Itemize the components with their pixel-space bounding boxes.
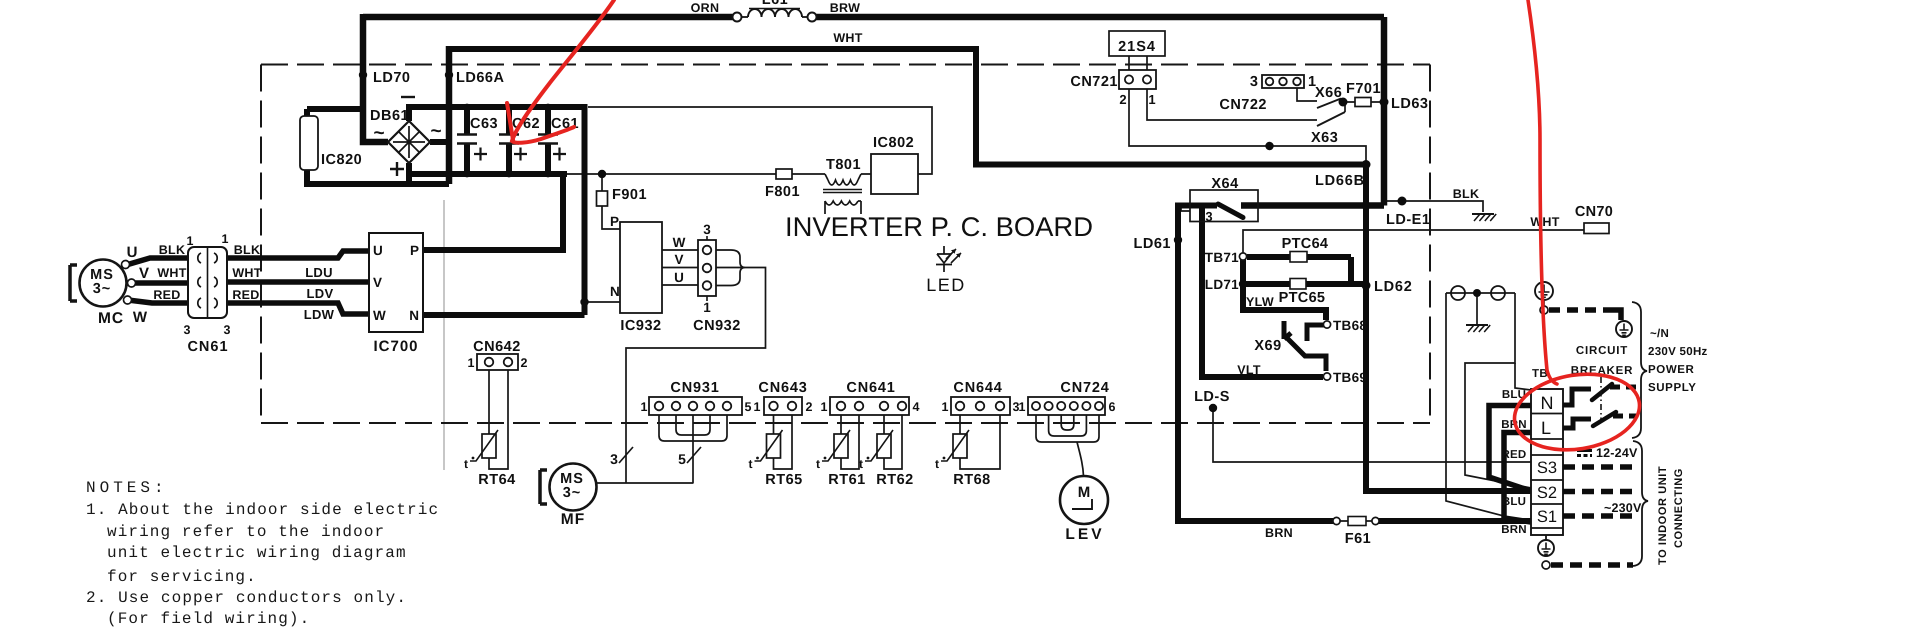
svg-text:LD-E1: LD-E1 xyxy=(1386,212,1430,228)
svg-text:BRN: BRN xyxy=(1501,524,1527,536)
svg-text:S1: S1 xyxy=(1537,508,1557,526)
node LD-E1 xyxy=(1398,197,1407,206)
svg-text:P: P xyxy=(410,243,419,258)
node: MC terminal U xyxy=(122,261,130,269)
capacitor C63 xyxy=(457,135,477,144)
transformer T801 xyxy=(825,174,861,180)
inverter p.c. board boundary xyxy=(261,65,1430,424)
node LD61 xyxy=(1174,236,1182,244)
svg-text:for servicing.: for servicing. xyxy=(107,568,257,586)
wire: motor MC leads U V W xyxy=(126,258,188,303)
svg-text:LED: LED xyxy=(926,275,966,295)
earth terminal circle (breaker) xyxy=(1616,321,1632,337)
svg-text:T801: T801 xyxy=(826,157,861,173)
svg-text:1: 1 xyxy=(942,400,949,414)
svg-text:W: W xyxy=(373,308,386,323)
svg-text:LD66A: LD66A xyxy=(456,70,504,86)
svg-text:W: W xyxy=(673,235,686,250)
svg-text:LDW: LDW xyxy=(304,307,335,322)
red annotation: ellipse around N L terminals xyxy=(1509,366,1645,459)
wire: TB68 link xyxy=(1307,325,1324,341)
svg-text:21S4: 21S4 xyxy=(1118,39,1156,55)
earth terminal circle (top) xyxy=(1535,282,1553,300)
svg-text:RED: RED xyxy=(1502,449,1527,461)
svg-text:IC820: IC820 xyxy=(321,152,362,168)
svg-text:5: 5 xyxy=(678,451,686,467)
svg-text:PTC65: PTC65 xyxy=(1279,290,1326,306)
wire: X66 junction to F701 to LD63 xyxy=(1343,102,1384,112)
svg-text:U: U xyxy=(127,244,138,261)
wire: minus rail to IC802 top loop xyxy=(588,107,932,174)
wire: S2 field dashed xyxy=(1563,489,1634,495)
fuse F701 xyxy=(1355,98,1371,107)
wire: earth link right drop to S2 xyxy=(1465,293,1531,488)
svg-text:~230V: ~230V xyxy=(1604,501,1642,515)
circuit breaker L pole xyxy=(1563,419,1591,428)
connector CN722 xyxy=(1262,75,1304,88)
svg-text:U: U xyxy=(674,270,684,285)
svg-text:INVERTER P. C. BOARD: INVERTER P. C. BOARD xyxy=(785,212,1093,242)
svg-text:X66: X66 xyxy=(1315,85,1342,101)
bridge rectifier DB61 xyxy=(388,121,430,163)
motor MC (compressor) xyxy=(80,260,127,307)
wire: MF to CN931 center (5 wire) xyxy=(596,482,694,484)
svg-text:TB71: TB71 xyxy=(1205,250,1239,265)
svg-text:CN643: CN643 xyxy=(758,380,807,396)
capacitor C61 xyxy=(538,135,558,144)
wire: N from IC700 xyxy=(423,104,585,315)
node LD66A xyxy=(445,71,453,79)
svg-text:CONNECTING: CONNECTING xyxy=(1673,468,1685,548)
node LD70 xyxy=(359,71,367,79)
svg-text:LD63: LD63 xyxy=(1391,96,1428,112)
svg-text:3: 3 xyxy=(703,222,711,237)
svg-text:LD61: LD61 xyxy=(1134,236,1171,252)
svg-text:POWER: POWER xyxy=(1648,364,1695,376)
svg-text:1: 1 xyxy=(468,356,475,370)
svg-text:3~: 3~ xyxy=(563,485,582,501)
wire: P from IC700 xyxy=(423,171,563,250)
svg-text:YLW: YLW xyxy=(1246,295,1274,309)
connector CN70 xyxy=(1584,223,1609,234)
svg-text:wiring refer to the indoor: wiring refer to the indoor xyxy=(107,523,385,541)
svg-text:CN722: CN722 xyxy=(1219,97,1267,113)
wire: LD66A vertical xyxy=(446,46,453,184)
svg-text:LD62: LD62 xyxy=(1374,279,1413,295)
IC U1 IC700 inverter power module xyxy=(369,233,423,332)
motor MF (fan) xyxy=(550,464,597,511)
wire: F901 branch P into IC932 xyxy=(602,174,620,229)
svg-text:WHT: WHT xyxy=(157,266,186,280)
capacitor C63 leads xyxy=(464,104,470,177)
wire: PTC right link xyxy=(1348,257,1354,284)
svg-text:(For field wiring).: (For field wiring). xyxy=(107,610,310,628)
wire: X64 right contact to LD63 riser xyxy=(1241,17,1384,206)
ground: PE chassis xyxy=(1466,324,1488,326)
svg-text:VLT: VLT xyxy=(1237,363,1261,377)
svg-text:CN70: CN70 xyxy=(1575,204,1613,220)
svg-text:TB69: TB69 xyxy=(1333,370,1367,385)
fuse F61 xyxy=(1348,517,1366,526)
svg-text:1: 1 xyxy=(754,400,761,414)
thermistor RT61 xyxy=(834,434,848,458)
node LD63 xyxy=(1380,98,1389,107)
wire: S1 field dashed xyxy=(1563,513,1634,519)
wire: earth link stub to TB top xyxy=(1515,363,1531,390)
svg-text:IC700: IC700 xyxy=(373,338,418,355)
wire: CN724 bracket to LEV xyxy=(1036,421,1099,442)
svg-text:M: M xyxy=(1078,484,1091,501)
switch box 21S4 xyxy=(1109,31,1165,56)
svg-text:IC932: IC932 xyxy=(620,318,661,334)
svg-text:V: V xyxy=(373,275,382,290)
svg-text:1: 1 xyxy=(821,400,828,414)
protective earth screw terminals xyxy=(1451,286,1465,300)
switch X63 blade xyxy=(1317,112,1345,126)
node LD62 xyxy=(1362,281,1371,290)
node: X64 wire / bus vertical junction xyxy=(1362,201,1371,210)
svg-text:t: t xyxy=(749,457,753,471)
terminal TB68 xyxy=(1323,321,1330,328)
LED indicator xyxy=(936,246,952,272)
wire: TB71-LD71-YLW vertical xyxy=(1243,258,1326,320)
inductor L61 xyxy=(733,13,742,22)
connector CN61 xyxy=(188,247,227,318)
svg-text:5: 5 xyxy=(745,400,752,414)
terminal TB69 xyxy=(1323,373,1330,380)
node: X66 output junction xyxy=(1339,98,1348,107)
svg-text:3~: 3~ xyxy=(93,281,112,297)
brace: power supply group xyxy=(1632,302,1647,438)
svg-text:RT65: RT65 xyxy=(765,472,802,488)
wire: S3 field dashed xyxy=(1563,464,1634,470)
switch X64 blade xyxy=(1218,204,1243,218)
svg-text:6: 6 xyxy=(1109,400,1116,414)
svg-text:SUPPLY: SUPPLY xyxy=(1648,382,1697,394)
svg-text:1: 1 xyxy=(641,400,648,414)
svg-text:t: t xyxy=(464,457,468,471)
brace: to indoor unit group xyxy=(1633,441,1648,566)
node: N branch dot xyxy=(580,298,588,306)
svg-text:3: 3 xyxy=(224,323,231,337)
node: capacitor rail junctions xyxy=(464,104,471,111)
wire: CN932 merge bracket xyxy=(716,250,745,286)
svg-text:1: 1 xyxy=(222,232,229,246)
wire: N branch into IC932 xyxy=(585,301,620,303)
svg-text:LDV: LDV xyxy=(307,286,334,301)
wire: plus rail thin extension to F801/T801 xyxy=(567,173,871,175)
earth terminal circle (below TB) xyxy=(1545,535,1547,540)
svg-text:2: 2 xyxy=(1119,92,1126,107)
node LD-S xyxy=(1209,404,1217,412)
wire: plus bottom rail xyxy=(409,163,567,184)
svg-text:WHT: WHT xyxy=(833,31,862,45)
capacitor C62 xyxy=(499,135,519,144)
svg-text:X63: X63 xyxy=(1311,130,1338,146)
svg-text:BLU: BLU xyxy=(1502,496,1526,508)
breaker mechanical link xyxy=(1600,377,1602,419)
red annotation: vertical line to breaker xyxy=(1528,0,1557,384)
svg-text:MF: MF xyxy=(561,511,585,528)
svg-text:CIRCUIT: CIRCUIT xyxy=(1576,345,1628,357)
wire: LD-E1 to BLK ground xyxy=(1387,201,1483,212)
IC802 xyxy=(871,154,918,194)
svg-text:1: 1 xyxy=(1019,400,1026,414)
wire: minus top rail xyxy=(409,104,586,121)
connector CN724 xyxy=(1036,415,1099,421)
svg-text:RED: RED xyxy=(232,288,259,302)
wire: PE dot to chassis ground xyxy=(1476,293,1478,324)
thermistor RT65 xyxy=(767,434,781,458)
terminal: field wire start xyxy=(1540,306,1548,314)
svg-text:S2: S2 xyxy=(1537,484,1557,502)
svg-text:BLK: BLK xyxy=(234,243,261,257)
fuse F901 xyxy=(597,191,608,206)
svg-text:CN642: CN642 xyxy=(473,339,521,355)
wire: scan crease artifact xyxy=(443,200,445,470)
capacitor C62 leads xyxy=(506,104,512,177)
svg-text:RED: RED xyxy=(153,288,180,302)
wire: X64 pin3 to VLT to TB69 xyxy=(1202,206,1323,378)
connector CN643 xyxy=(774,415,793,469)
svg-text:L61: L61 xyxy=(762,0,789,8)
svg-text:W: W xyxy=(133,309,148,326)
wire: X64 coil stub xyxy=(1181,206,1190,211)
wire: CN61 to IC700 RED xyxy=(227,303,369,314)
wire: PTC64 row xyxy=(1247,254,1351,260)
svg-text:1: 1 xyxy=(703,300,711,315)
node: bus / X63 net junction xyxy=(1362,160,1371,169)
svg-text:3: 3 xyxy=(610,451,618,467)
svg-text:V: V xyxy=(674,252,683,267)
wire: N cell riser xyxy=(1489,406,1531,492)
svg-text:LD71: LD71 xyxy=(1205,277,1239,292)
svg-text:LD70: LD70 xyxy=(373,70,410,86)
svg-text:t: t xyxy=(859,457,863,471)
wire: BRN after F61 to S1 xyxy=(1378,518,1531,524)
wire: IC820 top lead xyxy=(307,109,363,116)
svg-text:RT62: RT62 xyxy=(876,472,913,488)
svg-text:BRW: BRW xyxy=(830,1,861,15)
motor LEV (expansion valve) xyxy=(1060,476,1108,524)
svg-text:MC: MC xyxy=(98,310,124,327)
capacitor C61 leads xyxy=(545,104,551,177)
fuse F801 xyxy=(776,169,792,179)
svg-text:2. Use copper conductors only.: 2. Use copper conductors only. xyxy=(86,589,407,607)
svg-text:~/N: ~/N xyxy=(1650,328,1669,340)
svg-text:NOTES:: NOTES: xyxy=(86,479,168,497)
wire: field earth dashed to breaker earth xyxy=(1549,307,1612,313)
node: MC terminal V xyxy=(128,279,136,287)
PTC65 element xyxy=(1290,279,1306,290)
svg-text:N: N xyxy=(409,308,419,323)
svg-text:P: P xyxy=(610,214,619,229)
svg-text:PTC64: PTC64 xyxy=(1282,236,1329,252)
wire: LD-S to S3 xyxy=(1213,408,1531,462)
terminal block TB xyxy=(1531,389,1563,535)
wire: PTC65 row xyxy=(1243,281,1366,287)
svg-text:RT61: RT61 xyxy=(828,472,865,488)
node on plus rail xyxy=(598,170,606,178)
svg-text:CN931: CN931 xyxy=(670,380,719,396)
svg-text:230V 50Hz: 230V 50Hz xyxy=(1648,346,1708,358)
svg-text:WHT: WHT xyxy=(232,266,261,280)
svg-text:LEV: LEV xyxy=(1065,526,1104,543)
svg-text:t: t xyxy=(935,457,939,471)
wire: CN61 to IC700 WHT xyxy=(227,279,369,285)
svg-text:BLK: BLK xyxy=(1453,187,1480,201)
connector CN932 xyxy=(698,240,716,296)
svg-text:3: 3 xyxy=(1205,209,1212,224)
node: MC terminal W xyxy=(124,296,132,304)
wire: slash mark 5 xyxy=(687,447,701,463)
svg-text:CN641: CN641 xyxy=(846,380,895,396)
wire: top power wire ORN-L61-BRW xyxy=(363,14,1384,21)
terminal TB71 xyxy=(1239,253,1246,260)
svg-text:BLK: BLK xyxy=(159,243,186,257)
circuit breaker N pole xyxy=(1563,389,1591,405)
relay X64 xyxy=(1190,190,1258,222)
IC820 surge absorber xyxy=(300,116,318,170)
svg-text:C63: C63 xyxy=(470,116,498,132)
svg-text:~: ~ xyxy=(373,123,384,144)
svg-text:TO INDOOR UNIT: TO INDOOR UNIT xyxy=(1657,466,1669,565)
svg-text:2: 2 xyxy=(806,400,813,414)
svg-text:CN721: CN721 xyxy=(1070,74,1118,90)
node: CN722 pin3 junction xyxy=(1265,142,1273,150)
svg-text:F61: F61 xyxy=(1345,531,1372,547)
wire: CN642 to RT64 xyxy=(489,370,508,469)
connector CN642 xyxy=(477,354,518,370)
switch X69 xyxy=(1284,321,1326,371)
svg-text:TB68: TB68 xyxy=(1333,318,1367,333)
wire: CN721 pin1 to X63 xyxy=(1147,89,1317,120)
svg-text:RT64: RT64 xyxy=(478,472,515,488)
svg-text:CN644: CN644 xyxy=(953,380,1002,396)
svg-text:L: L xyxy=(1541,418,1551,438)
connector CN644 xyxy=(960,415,1000,469)
svg-text:WHT: WHT xyxy=(1530,215,1559,229)
wire: F61 element line xyxy=(1340,520,1372,522)
wire: WHT wire to right bus xyxy=(449,49,1366,165)
wire: DB61 right ~ lead xyxy=(430,139,449,145)
svg-text:LDU: LDU xyxy=(305,265,333,280)
svg-text:1: 1 xyxy=(1148,92,1155,107)
wire: CN721 pin2 / CN722 pin3 net to bus xyxy=(1129,89,1366,161)
wire: earth link left drop to S1 xyxy=(1446,293,1531,523)
connector CN931 xyxy=(659,415,727,421)
svg-text:1: 1 xyxy=(187,234,194,248)
node LD71 xyxy=(1239,280,1247,288)
wire: X64 left contact / LD61 / BRN run xyxy=(1178,206,1334,522)
DC symbol + labels xyxy=(1577,449,1592,452)
svg-text:RT68: RT68 xyxy=(953,472,990,488)
terminal + field earth dashed (bottom) xyxy=(1542,561,1550,569)
node: PE junction xyxy=(1473,289,1481,297)
wire: CN61 to IC700 BLK xyxy=(227,251,369,258)
svg-text:LD-S: LD-S xyxy=(1194,389,1230,405)
svg-text:F801: F801 xyxy=(765,184,800,200)
wire: LD70 vertical to DB61 left ~ xyxy=(363,14,388,142)
wire label BRN / fuse F61 xyxy=(1333,517,1340,524)
svg-text:BRN: BRN xyxy=(1265,526,1293,540)
svg-text:CN724: CN724 xyxy=(1060,380,1109,396)
svg-text:IC802: IC802 xyxy=(873,135,914,151)
wire: 21S4 leads xyxy=(1129,56,1147,70)
svg-text:t: t xyxy=(816,457,820,471)
svg-text:N: N xyxy=(610,284,620,299)
svg-text:V: V xyxy=(139,265,149,282)
wire: slash mark 3 xyxy=(619,447,633,463)
wire: CN931 merge bracket to MF xyxy=(659,421,727,483)
red annotation: check mark over C62 xyxy=(512,0,614,143)
svg-text:N: N xyxy=(1541,393,1554,413)
switch X66 blade xyxy=(1317,99,1341,109)
thermistor RT68 xyxy=(953,434,967,458)
wire: CN932 net down-left to MF (3 wire) xyxy=(626,268,766,484)
svg-text:F701: F701 xyxy=(1346,81,1381,97)
svg-text:LD66B: LD66B xyxy=(1315,173,1365,189)
svg-text:CN61: CN61 xyxy=(187,339,228,355)
connector CN721 xyxy=(1119,70,1156,89)
wire: CN722 pin1 to X66 xyxy=(1297,88,1317,101)
svg-text:2: 2 xyxy=(521,356,528,370)
PTC64 element xyxy=(1290,252,1307,263)
svg-text:CN932: CN932 xyxy=(693,318,741,334)
svg-text:3: 3 xyxy=(1250,74,1258,90)
wire: IC932 W V U to CN932 xyxy=(662,250,698,285)
wire: IC820 bottom rail xyxy=(307,170,449,184)
svg-text:ORN: ORN xyxy=(691,1,720,15)
svg-text:DB61: DB61 xyxy=(370,108,409,124)
wire: TB71 to CN70 (WHT) xyxy=(1243,230,1584,253)
IC U2 IC932 xyxy=(620,222,662,313)
svg-text:4: 4 xyxy=(913,400,920,414)
wire: protective earth bar xyxy=(1446,292,1515,294)
svg-text:~: ~ xyxy=(430,121,441,142)
wire: L cell riser xyxy=(1504,433,1531,523)
thermistor RT64 xyxy=(482,434,496,458)
wire: bus vertical LD66B to S2 xyxy=(1366,165,1531,492)
svg-text:1. About the indoor side elect: 1. About the indoor side electric xyxy=(86,501,439,519)
svg-text:S3: S3 xyxy=(1537,459,1557,477)
svg-text:12-24V: 12-24V xyxy=(1596,446,1638,460)
svg-text:F901: F901 xyxy=(612,187,647,203)
svg-text:U: U xyxy=(373,243,383,258)
svg-text:X69: X69 xyxy=(1254,338,1281,354)
connector CN641 xyxy=(841,415,859,469)
svg-text:X64: X64 xyxy=(1211,176,1238,192)
svg-text:3: 3 xyxy=(184,323,191,337)
svg-text:unit electric wiring diagram: unit electric wiring diagram xyxy=(107,544,407,562)
thermistor RT62 xyxy=(877,434,891,458)
ground: BLK chassis xyxy=(1472,213,1494,215)
